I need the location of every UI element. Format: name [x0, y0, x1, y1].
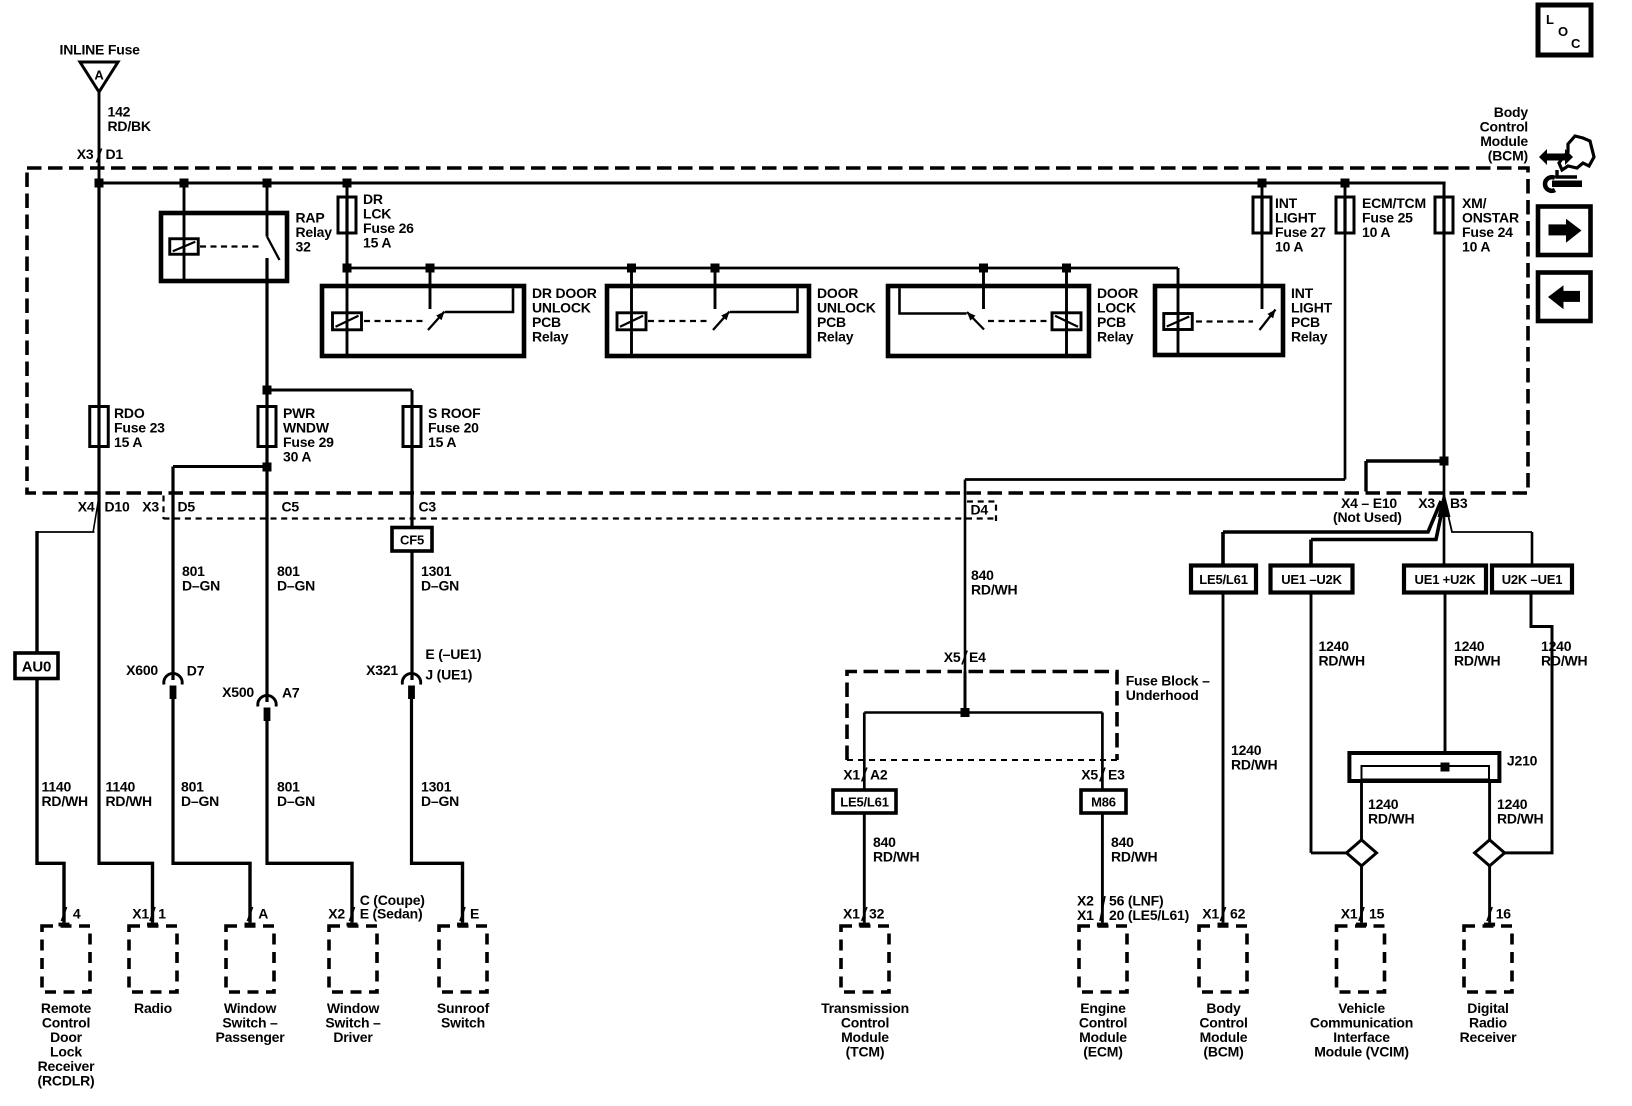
svg-text:E3: E3	[1108, 767, 1125, 783]
svg-text:RD/BK: RD/BK	[108, 118, 151, 134]
svg-text:D5: D5	[178, 499, 196, 515]
svg-text:(ECM): (ECM)	[1083, 1044, 1122, 1060]
svg-text:RD/WH: RD/WH	[971, 582, 1018, 598]
svg-text:(BCM): (BCM)	[1488, 148, 1528, 164]
svg-text:20 (LE5/L61): 20 (LE5/L61)	[1109, 907, 1189, 923]
svg-text:CF5: CF5	[400, 533, 424, 548]
svg-text:RD/WH: RD/WH	[1454, 653, 1501, 669]
svg-text:Passenger: Passenger	[215, 1029, 285, 1045]
svg-text:X500: X500	[222, 684, 254, 700]
svg-text:RD/WH: RD/WH	[106, 793, 153, 809]
svg-text:32: 32	[869, 906, 885, 922]
svg-text:D4: D4	[971, 502, 989, 518]
svg-text:X3: X3	[1418, 495, 1435, 511]
svg-text:J (UE1): J (UE1)	[425, 667, 472, 683]
svg-text:Relay: Relay	[532, 329, 569, 345]
svg-text:(Not Used): (Not Used)	[1333, 509, 1402, 525]
svg-text:D10: D10	[105, 499, 130, 515]
svg-text:Underhood: Underhood	[1126, 687, 1199, 703]
svg-text:X1: X1	[1341, 906, 1358, 922]
svg-text:RD/WH: RD/WH	[1368, 811, 1415, 827]
svg-text:LE5/L61: LE5/L61	[1199, 572, 1247, 587]
svg-text:Receiver: Receiver	[1460, 1029, 1518, 1045]
svg-text:LE5/L61: LE5/L61	[840, 795, 888, 810]
svg-text:1: 1	[158, 906, 166, 922]
svg-text:D–GN: D–GN	[421, 793, 459, 809]
svg-text:E: E	[470, 906, 479, 922]
svg-text:C3: C3	[419, 499, 437, 515]
svg-text:10 A: 10 A	[1462, 239, 1490, 255]
svg-text:RD/WH: RD/WH	[1541, 653, 1588, 669]
svg-text:62: 62	[1230, 906, 1246, 922]
svg-text:10 A: 10 A	[1362, 224, 1390, 240]
svg-text:X5: X5	[1081, 767, 1098, 783]
svg-text:RD/WH: RD/WH	[42, 793, 89, 809]
svg-text:Relay: Relay	[1291, 329, 1328, 345]
svg-text:(RCDLR): (RCDLR)	[38, 1073, 95, 1089]
svg-text:X321: X321	[366, 662, 398, 678]
svg-text:X1: X1	[132, 906, 149, 922]
svg-text:E (–UE1): E (–UE1)	[425, 646, 481, 662]
svg-text:UE1 –U2K: UE1 –U2K	[1281, 572, 1342, 587]
svg-text:AU0: AU0	[22, 659, 51, 676]
svg-text:X5: X5	[944, 649, 961, 665]
svg-text:Driver: Driver	[333, 1029, 373, 1045]
svg-text:A7: A7	[282, 685, 300, 701]
svg-text:RD/WH: RD/WH	[1111, 849, 1158, 865]
svg-text:(BCM): (BCM)	[1203, 1044, 1243, 1060]
svg-text:15 A: 15 A	[114, 434, 142, 450]
svg-text:X3: X3	[77, 146, 94, 162]
svg-text:RD/WH: RD/WH	[1231, 757, 1278, 773]
svg-text:D–GN: D–GN	[421, 578, 459, 594]
svg-text:D1: D1	[106, 146, 124, 162]
svg-text:15 A: 15 A	[428, 434, 456, 450]
svg-text:A2: A2	[870, 767, 888, 783]
svg-text:X600: X600	[126, 662, 158, 678]
svg-text:RD/WH: RD/WH	[1497, 811, 1544, 827]
svg-text:J210: J210	[1507, 753, 1538, 769]
svg-text:X1: X1	[1202, 906, 1219, 922]
svg-text:O: O	[1558, 24, 1568, 39]
svg-text:INLINE Fuse: INLINE Fuse	[60, 42, 141, 58]
svg-text:B3: B3	[1450, 495, 1468, 511]
svg-text:Module (VCIM): Module (VCIM)	[1314, 1044, 1409, 1060]
svg-text:16: 16	[1496, 906, 1512, 922]
svg-text:X1: X1	[843, 767, 860, 783]
svg-text:Switch: Switch	[441, 1015, 485, 1031]
svg-text:X2: X2	[328, 906, 345, 922]
svg-text:4: 4	[73, 906, 81, 922]
svg-text:A: A	[258, 906, 268, 922]
svg-text:32: 32	[296, 239, 312, 255]
svg-text:L: L	[1546, 12, 1554, 27]
svg-text:A: A	[94, 68, 104, 83]
svg-text:M86: M86	[1091, 795, 1116, 810]
svg-text:RD/WH: RD/WH	[1319, 653, 1366, 669]
svg-text:15 A: 15 A	[363, 235, 391, 251]
svg-text:15: 15	[1369, 906, 1385, 922]
svg-text:UE1 +U2K: UE1 +U2K	[1415, 572, 1477, 587]
svg-text:U2K –UE1: U2K –UE1	[1502, 572, 1563, 587]
svg-text:C5: C5	[282, 499, 300, 515]
svg-text:D–GN: D–GN	[277, 578, 315, 594]
svg-text:Relay: Relay	[817, 329, 854, 345]
svg-text:30 A: 30 A	[283, 449, 311, 465]
svg-text:D–GN: D–GN	[182, 578, 220, 594]
svg-text:(TCM): (TCM)	[846, 1044, 885, 1060]
svg-text:X4: X4	[78, 499, 95, 515]
svg-text:X3: X3	[142, 499, 159, 515]
svg-text:Radio: Radio	[134, 1000, 172, 1016]
svg-text:RD/WH: RD/WH	[873, 849, 920, 865]
svg-text:Relay: Relay	[1097, 329, 1134, 345]
svg-text:D7: D7	[187, 663, 205, 679]
svg-text:E4: E4	[969, 649, 986, 665]
svg-text:D–GN: D–GN	[277, 793, 315, 809]
svg-text:E (Sedan): E (Sedan)	[360, 906, 423, 922]
svg-text:10 A: 10 A	[1275, 239, 1303, 255]
svg-text:X1: X1	[843, 906, 860, 922]
svg-text:X1: X1	[1077, 907, 1094, 923]
svg-text:D–GN: D–GN	[181, 793, 219, 809]
svg-text:C: C	[1571, 36, 1581, 51]
